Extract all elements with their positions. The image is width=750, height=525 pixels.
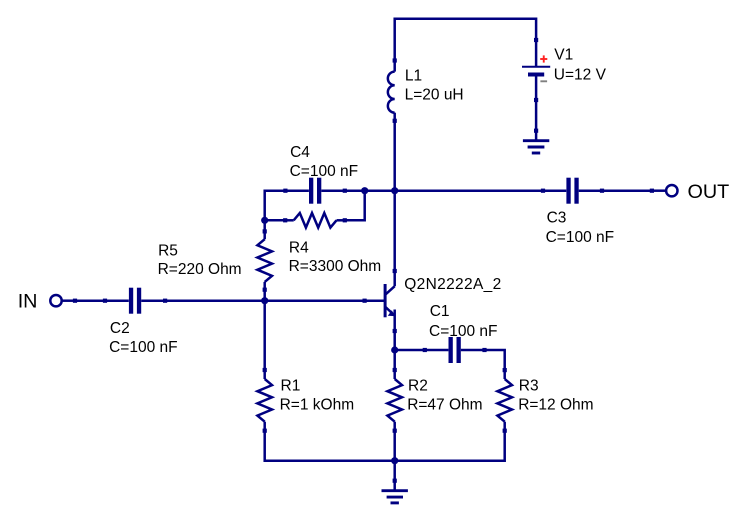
svg-text:R=12 Ohm: R=12 Ohm (518, 396, 593, 413)
ground 1 (below V1) (523, 131, 549, 153)
svg-text:R3: R3 (519, 377, 539, 394)
svg-text:R2: R2 (408, 377, 428, 394)
svg-text:Q2N2222A_2: Q2N2222A_2 (404, 276, 501, 293)
svg-text:V1: V1 (554, 47, 573, 64)
svg-text:C3: C3 (547, 210, 567, 227)
capacitor C4 (285, 178, 344, 204)
svg-text:R4: R4 (289, 240, 309, 257)
svg-text:C4: C4 (290, 144, 310, 161)
junction node: ground bus (391, 457, 398, 464)
wire: R4/R5 node to R4 left pin (265, 219, 286, 222)
resistor R1 (257, 370, 272, 431)
junction node: emitter node (391, 346, 398, 353)
wire: ground bus to R3 bottom (395, 431, 505, 461)
resistor R5 (257, 231, 272, 289)
inductor L1 (388, 61, 395, 121)
wire: C4 right pin to node at x365 (345, 189, 365, 192)
wire: R2 bottom to ground bus (393, 431, 396, 461)
ground 2 (emitter bus) (382, 481, 408, 503)
resistor R3 (497, 370, 512, 431)
resistor R2 (387, 370, 402, 431)
svg-text:L1: L1 (405, 67, 422, 84)
wire: IN port to C2 (75, 299, 105, 302)
capacitor C3 (543, 178, 602, 204)
svg-text:R1: R1 (281, 377, 301, 394)
svg-text:C1: C1 (430, 303, 450, 320)
svg-text:R=3300 Ohm: R=3300 Ohm (289, 258, 382, 275)
wire: R1 bottom to ground bus (265, 431, 395, 461)
wire: R5 bottom pin to base node (263, 290, 266, 301)
junction node: collector node (391, 187, 398, 194)
wire: L1 bottom to collector node (393, 121, 396, 191)
port OUT (652, 185, 678, 196)
V1 plus sign (540, 55, 547, 62)
svg-text:IN: IN (18, 291, 38, 313)
resistor R4 (285, 213, 345, 228)
transistor Q1 Q2N2222A_2 (365, 271, 395, 331)
wire: R4/R5 node to R5 top pin (263, 220, 266, 231)
component pins (terminal squares) (73, 38, 654, 483)
wire: base node to Q1 base pin (265, 299, 365, 302)
wire: R4 right pin up to C4 wire (345, 191, 365, 221)
wire: C2 to base node (165, 299, 265, 302)
wire: ground bus to ground 2 (393, 461, 396, 481)
wire: C1 right to R3 top (485, 350, 505, 370)
wire: C3 to OUT port (602, 189, 652, 192)
wire: collector node to C3 (395, 189, 543, 192)
wire: V1 bottom to ground 1 (535, 100, 538, 131)
wire: collector node down to Q1 collector (393, 191, 396, 271)
svg-text:R=220 Ohm: R=220 Ohm (158, 261, 242, 278)
svg-text:L=20 uH: L=20 uH (405, 86, 464, 103)
junction node: C4/R4 right join (361, 187, 368, 194)
svg-text:U=12 V: U=12 V (554, 66, 607, 83)
wire: base node down to R1 top (263, 301, 266, 370)
svg-text:R5: R5 (158, 243, 178, 260)
V1 minus sign (540, 80, 547, 82)
capacitor C2 (105, 288, 165, 314)
svg-text:R=1 kOhm: R=1 kOhm (280, 396, 355, 413)
voltage source V1 (522, 40, 550, 100)
capacitor C1 (425, 337, 485, 363)
junction node: base node (261, 297, 268, 304)
svg-text:C=100 nF: C=100 nF (429, 323, 498, 340)
port IN (50, 295, 75, 306)
wire top: L1 top to V1 top (395, 19, 536, 61)
wire: node x365 to collector node (365, 189, 395, 192)
svg-text:C=100 nF: C=100 nF (290, 163, 359, 180)
wire: emitter node to R2 top (393, 350, 396, 370)
junction node: R4/R5/C4 left join (261, 217, 268, 224)
svg-text:C=100 nF: C=100 nF (546, 229, 615, 246)
svg-text:C2: C2 (110, 320, 130, 337)
wire: C4 left corner down to R4/R5 node (265, 191, 286, 221)
wire: emitter node to C1 left (395, 349, 425, 352)
svg-text:OUT: OUT (688, 181, 730, 203)
svg-text:R=47 Ohm: R=47 Ohm (407, 396, 482, 413)
svg-text:C=100 nF: C=100 nF (109, 339, 178, 356)
wire: Q1 emitter to emitter node (393, 331, 396, 350)
